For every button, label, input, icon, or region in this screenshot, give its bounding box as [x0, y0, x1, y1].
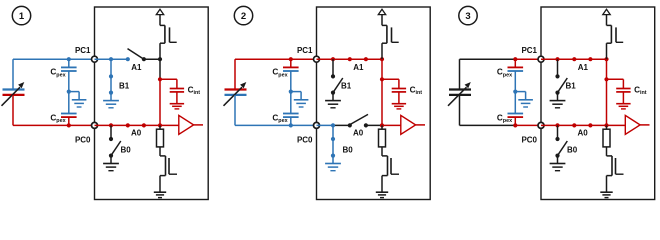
switch B0 to ground (panel 2, closed) [325, 123, 353, 170]
ground: discharge (panel 2) [376, 192, 388, 197]
node PC0 terminal (panel 3) [521, 122, 544, 144]
capacitor Cint (panel 2) [380, 77, 422, 103]
svg-text:PC1: PC1 [521, 46, 537, 55]
transistor M2 discharge FET (panel 3) [607, 156, 624, 192]
transistor M1 charging FET (panel 3) [607, 25, 624, 43]
wire: integration node vertical (panel 3) [606, 59, 608, 125]
svg-text:A1: A1 [353, 63, 364, 72]
svg-text:A0: A0 [353, 129, 364, 138]
transistor M1 charging FET (panel 2) [382, 25, 399, 43]
node: Cpex midpoint junction (panel 1) [67, 90, 71, 94]
svg-text:PC0: PC0 [75, 135, 91, 144]
wire: M1 drain to A1 node (panel 2) [381, 43, 383, 59]
ground: Cint (panel 3) [616, 104, 630, 109]
wire: sensor top plate to PC1 (panel 2) [235, 59, 317, 89]
switch B1 to ground (panel 1, closed) [103, 59, 130, 108]
svg-text:B1: B1 [119, 82, 130, 91]
panel 3 circled step number 3 [459, 6, 477, 24]
parasitic capacitor Cpex top (panel 3) [497, 57, 523, 91]
wire: sensor top plate to PC1 (panel 1) [13, 59, 95, 89]
op-amp comparator U1 (panel 2) [382, 115, 425, 134]
svg-text:A1: A1 [578, 63, 589, 72]
svg-text:PC1: PC1 [75, 46, 91, 55]
switch B0 to ground (panel 1, open) [103, 125, 131, 170]
supply arrow VDD (panel 3) [603, 9, 610, 25]
switch A0 (panel 1, closed) [95, 123, 163, 137]
wire: integration node vertical (panel 1) [159, 59, 161, 125]
svg-text:3: 3 [465, 11, 470, 22]
parasitic capacitor Cpex bottom (panel 2) [272, 92, 298, 128]
transistor M2 discharge FET (panel 1) [160, 156, 177, 192]
svg-text:PC0: PC0 [521, 135, 537, 144]
svg-text:PC0: PC0 [297, 135, 313, 144]
op-amp comparator U1 (panel 3) [607, 115, 650, 134]
op-amp comparator U1 (panel 1) [160, 115, 203, 134]
svg-text:PC1: PC1 [297, 46, 313, 55]
ground: Cpex midpoint (panel 2) [291, 92, 309, 107]
node PC0 terminal (panel 1) [75, 122, 98, 144]
ground: Cint (panel 2) [392, 104, 406, 109]
svg-text:A1: A1 [131, 63, 142, 72]
transistor M1 charging FET (panel 1) [160, 25, 177, 43]
panel 3 enclosure box [541, 7, 655, 200]
resistor R1 (panel 3) [603, 125, 610, 155]
parasitic capacitor Cpex top (panel 1) [50, 57, 76, 91]
variable sense capacitor Cx (panel 2) [224, 82, 247, 106]
supply arrow VDD (panel 2) [378, 9, 385, 25]
ground: Cpex midpoint (panel 3) [515, 92, 533, 107]
svg-text:B1: B1 [566, 82, 577, 91]
panel 1 circled step number 1 [12, 6, 30, 24]
ground: discharge (panel 3) [600, 192, 612, 197]
svg-text:B0: B0 [121, 145, 132, 154]
panel 2 enclosure box [317, 7, 431, 200]
variable sense capacitor Cx (panel 3) [448, 82, 471, 106]
node PC1 terminal (panel 2) [297, 46, 320, 62]
node: Cpex midpoint junction (panel 3) [513, 90, 517, 94]
wire: sensor bottom plate to PC0 (panel 3) [460, 95, 542, 126]
capacitor Cint (panel 3) [604, 77, 646, 103]
node: Cpex midpoint junction (panel 2) [289, 90, 293, 94]
svg-text:A0: A0 [131, 129, 142, 138]
wire: M1 drain to A1 node (panel 3) [606, 43, 608, 59]
switch A0 (panel 3, closed) [541, 123, 609, 137]
parasitic capacitor Cpex bottom (panel 1) [50, 92, 76, 128]
svg-text:B1: B1 [341, 82, 352, 91]
svg-text:B0: B0 [343, 145, 354, 154]
svg-text:2: 2 [241, 11, 246, 22]
wire: M1 drain to A1 node (panel 1) [159, 43, 161, 59]
wire: integration node vertical (panel 2) [381, 59, 383, 125]
switch A1 (panel 3, closed) [541, 57, 609, 72]
switch B1 to ground (panel 3, open) [550, 59, 577, 108]
wire: sensor bottom plate to PC0 (panel 2) [235, 95, 317, 126]
svg-text:A0: A0 [578, 129, 589, 138]
wire: sensor bottom plate to PC0 (panel 1) [13, 95, 95, 126]
node PC1 terminal (panel 3) [521, 46, 544, 62]
parasitic capacitor Cpex bottom (panel 3) [497, 92, 523, 128]
switch A1 (panel 2, closed) [317, 57, 385, 72]
variable sense capacitor Cx (panel 1) [2, 82, 25, 106]
panel 2 circled step number 2 [234, 6, 252, 24]
transistor M2 discharge FET (panel 2) [382, 156, 399, 192]
ground: Cpex midpoint (panel 1) [69, 92, 87, 107]
capacitor Cint (panel 1) [158, 77, 200, 103]
switch A1 (panel 1, open) [95, 49, 163, 72]
resistor R1 (panel 2) [379, 125, 386, 155]
svg-text:1: 1 [19, 11, 25, 22]
switch A0 (panel 2, open) [317, 114, 385, 137]
svg-text:B0: B0 [567, 145, 578, 154]
ground: Cint (panel 1) [170, 104, 184, 109]
supply arrow VDD (panel 1) [156, 9, 163, 25]
parasitic capacitor Cpex top (panel 2) [272, 57, 298, 91]
node PC1 terminal (panel 1) [75, 46, 98, 62]
switch B0 to ground (panel 3, open) [550, 125, 578, 170]
ground: discharge (panel 1) [154, 192, 166, 197]
node PC0 terminal (panel 2) [297, 122, 320, 144]
switch B1 to ground (panel 2, open) [325, 59, 352, 108]
wire: sensor top plate to PC1 (panel 3) [460, 59, 542, 89]
panel 1 enclosure box [95, 7, 209, 200]
resistor R1 (panel 1) [157, 125, 164, 155]
